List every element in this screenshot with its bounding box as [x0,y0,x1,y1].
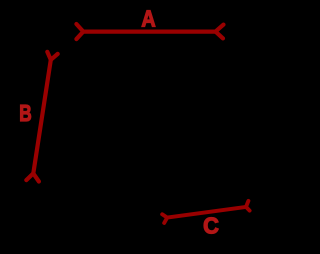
svg-text:C: C [203,213,219,239]
svg-text:B: B [19,102,31,127]
svg-text:A: A [141,6,155,32]
